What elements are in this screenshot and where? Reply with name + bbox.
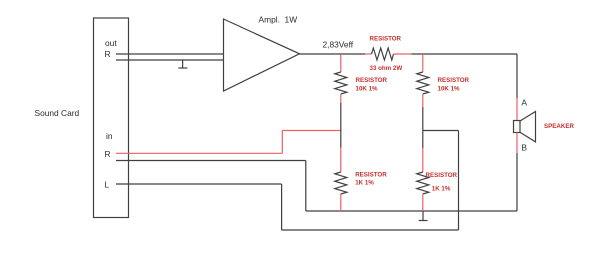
wire in R (red) vertical up	[281, 131, 283, 154]
wire L horizontal	[116, 183, 282, 185]
svg-text:1K 1%: 1K 1%	[355, 180, 374, 187]
svg-text:RESISTOR: RESISTOR	[426, 172, 458, 179]
svg-text:2,83Veff: 2,83Veff	[323, 39, 354, 49]
wire L vertical down	[281, 184, 283, 230]
svg-text:33 ohm 2W: 33 ohm 2W	[370, 65, 403, 72]
svg-text:R: R	[105, 149, 111, 159]
wire speaker B down to bus	[516, 153, 518, 211]
svg-text:10K 1%: 10K 1%	[356, 85, 379, 92]
resistor R4 1K zigzag	[335, 172, 347, 194]
svg-text:Sound Card: Sound Card	[35, 108, 80, 118]
resistor R5 1K zigzag	[417, 172, 429, 194]
resistor R3 10K zigzag	[417, 72, 429, 94]
ground G2 bar	[419, 220, 428, 222]
speaker pin B (red)	[516, 133, 518, 154]
resistor R2 10K top lead (red)	[340, 54, 342, 72]
wire out lower to amp	[116, 59, 224, 61]
resistor R4 bottom lead (red)	[340, 194, 342, 211]
svg-text:10K 1%: 10K 1%	[438, 86, 461, 93]
wire R1 to speaker corner	[411, 53, 517, 55]
resistor R2 bottom lead (red)	[340, 94, 342, 103]
svg-text:out: out	[105, 38, 117, 48]
wire L return vertical up	[458, 131, 460, 231]
wire in lower vertical down	[305, 161, 307, 212]
svg-text:R: R	[105, 49, 111, 59]
speaker LS1 horn	[520, 112, 536, 142]
resistor R3 10K top lead (red)	[422, 54, 424, 72]
wire L bottom horizontal	[282, 229, 459, 231]
resistor R1 33 ohm zigzag	[372, 48, 394, 60]
resistor R2 10K zigzag	[335, 72, 347, 94]
speaker LS1 body	[514, 121, 521, 133]
resistor R5 bottom lead (red)	[422, 194, 424, 211]
wire divider 1 mid	[340, 103, 342, 148]
resistor R1 lead right (red)	[394, 53, 412, 55]
ground G1 bar	[178, 67, 187, 69]
svg-text:A: A	[521, 98, 527, 108]
svg-text:RESISTOR: RESISTOR	[438, 77, 470, 84]
resistor R5 1K top lead (red)	[422, 148, 424, 172]
svg-text:L: L	[105, 180, 110, 190]
Sound Card box	[94, 18, 129, 218]
resistor R4 1K top lead (red)	[340, 148, 342, 173]
wire in R (red) horizontal	[116, 152, 282, 154]
wire out R upper to amp	[116, 53, 224, 55]
svg-text:SPEAKER: SPEAKER	[544, 123, 574, 130]
speaker pin A (red)	[516, 98, 518, 121]
resistor R3 bottom lead (red)	[422, 94, 424, 107]
op-amp U1 triangle	[224, 19, 300, 91]
svg-text:RESISTOR: RESISTOR	[370, 36, 402, 43]
svg-text:B: B	[521, 143, 527, 153]
ground bus wire	[306, 210, 517, 212]
wire in lower horizontal	[116, 160, 306, 162]
wire divider 2 mid	[422, 107, 424, 148]
ground G2 stub	[422, 211, 424, 221]
svg-text:1K 1%: 1K 1%	[432, 185, 451, 192]
svg-text:RESISTOR: RESISTOR	[355, 171, 387, 178]
svg-text:RESISTOR: RESISTOR	[356, 77, 388, 84]
resistor R1 33 ohm lead left (red)	[365, 53, 372, 55]
wire down to speaker A	[516, 54, 518, 98]
svg-text:Ampl. 1W: Ampl. 1W	[259, 15, 298, 25]
ground G1 stub	[182, 60, 184, 68]
svg-text:in: in	[106, 131, 113, 141]
wire in R (red) to divider 1 tap	[282, 130, 341, 132]
wire amp output	[300, 53, 366, 55]
wire L to divider 2 tap	[423, 130, 459, 132]
